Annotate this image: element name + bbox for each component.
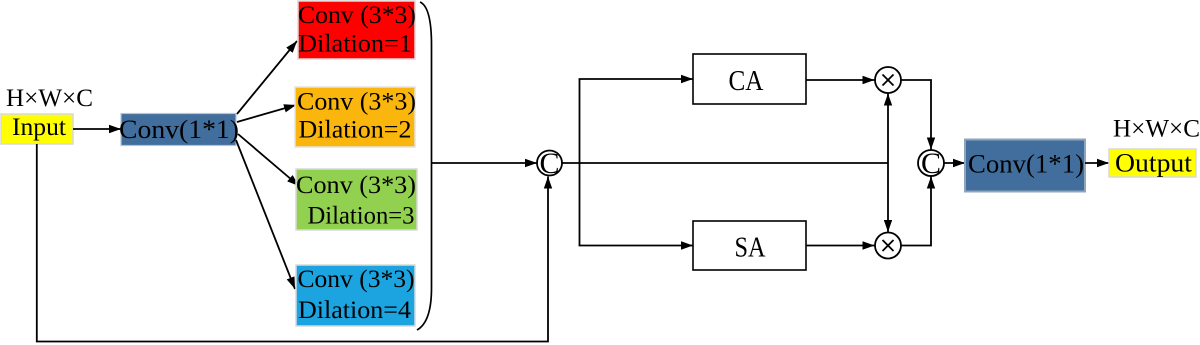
wire bracket to concat1 [432, 162, 538, 164]
red box Conv(3*3) Dilation=1 [298, 1, 416, 59]
svg-text:Output: Output [1115, 149, 1193, 178]
wire conv1 to blue branch [236, 140, 295, 289]
wire conv1 to orange branch [237, 105, 296, 122]
CA box [693, 54, 806, 104]
wire CA to multiplier1 [806, 79, 875, 81]
multiplier node X1 [875, 67, 901, 93]
wire conv2 to output [1085, 162, 1109, 164]
wire feature to multiplier2 (down) [887, 163, 889, 232]
svg-text:Dilation=4: Dilation=4 [298, 297, 412, 324]
brace bracket [417, 2, 432, 330]
input box [1, 114, 73, 144]
svg-text:Conv(1*1): Conv(1*1) [119, 115, 239, 144]
wire concat1 to multiplier column [562, 162, 888, 164]
svg-text:Dilation=1: Dilation=1 [298, 31, 412, 58]
svg-text:SA: SA [735, 233, 767, 264]
svg-text:Conv (3*3): Conv (3*3) [296, 172, 416, 199]
wire input to conv1 [73, 128, 121, 130]
svg-text:Conv (3*3): Conv (3*3) [297, 89, 416, 116]
branch vertical wire [579, 79, 581, 246]
svg-text:Dilation=2: Dilation=2 [299, 117, 412, 144]
multiplier node X2 [875, 233, 901, 259]
svg-text:C: C [921, 147, 941, 180]
concat node C1 [537, 147, 562, 180]
orange box Conv(3*3) Dilation=2 [295, 87, 416, 147]
wire multiplier2 to concat2 [901, 185, 931, 246]
green box Conv(3*3) Dilation=3 [296, 169, 417, 230]
wire branch to SA [579, 245, 693, 247]
svg-text:Conv (3*3): Conv (3*3) [298, 2, 416, 29]
svg-text:Dilation=3: Dilation=3 [308, 203, 415, 230]
conv2 box Conv(1*1) [965, 140, 1085, 192]
svg-text:H×W×C: H×W×C [1113, 116, 1200, 143]
wire SA to multiplier2 [806, 245, 875, 247]
wire multiplier1 to concat2 [901, 80, 931, 141]
svg-text:Conv(1*1): Conv(1*1) [968, 150, 1084, 179]
concat node C2 [918, 147, 944, 180]
wire branch to CA [579, 78, 693, 80]
blue box Conv(3*3) Dilation=4 [296, 265, 415, 326]
skip connection wire (input to concat1) [37, 144, 548, 342]
SA box [693, 221, 806, 270]
output box [1109, 149, 1196, 178]
svg-text:CA: CA [729, 66, 765, 97]
wire concat2 to conv2 [944, 162, 965, 164]
wire conv1 to red branch [237, 41, 297, 114]
svg-text:C: C [539, 147, 559, 180]
wire conv1 to green branch [238, 134, 299, 186]
svg-text:H×W×C: H×W×C [6, 85, 93, 112]
wire feature to multiplier1 (up) [887, 94, 889, 164]
svg-text:Conv (3*3): Conv (3*3) [298, 266, 415, 293]
conv1 box Conv(1*1) [119, 114, 239, 146]
svg-text:Input: Input [12, 114, 66, 141]
